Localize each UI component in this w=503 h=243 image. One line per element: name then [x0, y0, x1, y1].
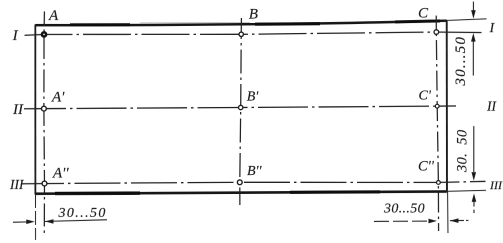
row line III (dash-dot through A'' B'' C'') [22, 181, 486, 184]
plate outline left edge [34, 25, 36, 195]
dimension line bottom-right arrow (points left at right edge) [450, 219, 464, 221]
svg-text:A: A [48, 8, 59, 24]
plate outline bottom edge [35, 191, 447, 194]
svg-text:III: III [9, 177, 25, 192]
dimension line bottom-right arrow (points right at column C) [374, 220, 429, 222]
row line I (dash-dot through A B C) [25, 32, 482, 36]
point A'' circle [42, 181, 47, 186]
svg-text:30. 50: 30. 50 [454, 129, 470, 173]
dimension line bottom-left outer arrow (points right at plate edge) [13, 221, 27, 223]
point C circle [434, 30, 439, 35]
svg-text:B: B [249, 7, 258, 23]
bottom-right vertical dimension down arrow (points at row line III ext) [473, 126, 475, 172]
svg-text:III: III [489, 178, 503, 192]
point B' circle [239, 105, 243, 109]
column line B (vertical dash-dot) [240, 18, 242, 205]
top edge extension line right [447, 19, 487, 21]
point B circle [239, 32, 243, 36]
bottom-right vertical dimension up arrow (points at bottom edge ext) [473, 202, 475, 214]
svg-text:I: I [489, 21, 496, 36]
svg-text:30...50: 30...50 [57, 206, 106, 221]
plate top edge rough blobs [70, 23, 130, 26]
row line II (dash-dot through A' B' C') [24, 106, 456, 109]
top-right dimension up arrow (points at row line I ext) [472, 42, 474, 76]
svg-text:B'': B'' [247, 164, 263, 179]
svg-text:C': C' [419, 89, 432, 104]
svg-text:30...50: 30...50 [453, 36, 469, 87]
top-right dimension down arrow (points at top edge ext) [472, 2, 474, 11]
left edge extension line below [34, 194, 36, 240]
svg-text:A': A' [51, 90, 65, 106]
point C' circle [435, 104, 439, 108]
bottom edge extension line right [447, 190, 486, 191]
point C'' circle [436, 181, 440, 185]
plate outline right edge [446, 20, 448, 192]
svg-text:C'': C'' [418, 159, 435, 175]
plate outline top edge [35, 21, 447, 26]
point A circle [42, 32, 46, 36]
svg-text:C: C [418, 6, 429, 22]
column line C (vertical dash-dot) [436, 16, 438, 232]
right edge extension line below [447, 192, 449, 234]
svg-text:I: I [12, 28, 19, 44]
column line A (vertical dash-dot) [43, 11, 46, 237]
point A' circle [42, 106, 47, 111]
svg-text:30...50: 30...50 [383, 201, 425, 216]
plate bottom edge rough blobs [55, 191, 140, 195]
svg-text:A'': A'' [52, 165, 69, 181]
svg-text:II: II [12, 102, 24, 118]
svg-text:II: II [486, 99, 498, 114]
svg-text:B': B' [247, 90, 260, 105]
point B'' circle [237, 180, 242, 185]
dimension line bottom-left inner arrow (points left at column A) [45, 220, 107, 222]
